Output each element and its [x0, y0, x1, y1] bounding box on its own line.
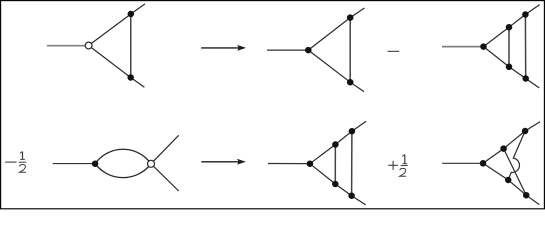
- label: coefficient -1/2: [5, 152, 26, 173]
- wire: bubble incoming horizontal propagator: [53, 163, 92, 165]
- label: coefficient +1/2: [388, 155, 408, 177]
- numerator digit 1: [404, 155, 406, 164]
- wire: D6 outer vertical rung: [351, 131, 353, 196]
- node: D3 left vertex dot: [480, 43, 487, 50]
- wire: D1 right vertical rung: [130, 14, 132, 78]
- node: D6 upper outer dot: [349, 128, 356, 135]
- numerator digit 1: [22, 152, 24, 160]
- node: D6 lower outer dot: [348, 192, 355, 199]
- wire: D2 lower side + outgoing leg: [308, 50, 364, 92]
- node: D6 lower inner dot: [332, 181, 339, 188]
- wire: D3 upper side + outgoing leg: [484, 5, 540, 47]
- wire: D3 incoming horizontal propagator: [442, 46, 484, 48]
- fraction bar: [401, 165, 408, 167]
- fraction bar: [19, 161, 27, 163]
- node: D7 upper inner dot: [500, 145, 507, 152]
- wire: D1 upper side: [89, 14, 131, 46]
- wire: D6 incoming horizontal propagator: [268, 163, 310, 165]
- minus sign: [5, 161, 17, 163]
- node: D1 top vertex dot: [128, 11, 135, 18]
- wire: bubble lower arc: [95, 164, 151, 178]
- node: D6 upper inner dot: [332, 141, 339, 148]
- wire: D7 lower side + outgoing leg: [483, 163, 539, 204]
- node: D7 top dot: [522, 128, 529, 135]
- node: bubble right open (bare) vertex: [148, 160, 155, 167]
- node: D1 open (bare) vertex: [85, 42, 92, 49]
- diagram D1: one-loop triangle with bare (open) vertex: [47, 4, 145, 87]
- wire: D3 outer vertical rung: [524, 15, 526, 79]
- wire: D1 lower outgoing leg: [131, 78, 145, 88]
- wire: D6 lower side + outgoing leg: [310, 164, 366, 205]
- node: D2 left vertex dot: [305, 47, 312, 54]
- wire: D1 lower side: [89, 46, 131, 78]
- diagram D7: crossed (non-planar) two-rung triangle: [442, 122, 540, 205]
- diagram D6: planar two-rung ladder triangle (bottom): [268, 121, 366, 205]
- denominator digit 2: [400, 168, 407, 176]
- node: D6 left vertex dot: [307, 160, 314, 167]
- arrow: top row implication arrow: [201, 45, 246, 51]
- node: D3 upper outer dot: [522, 11, 529, 18]
- wire: bubble upper arc: [95, 149, 151, 164]
- operator: minus sign between D2 and D3: [388, 50, 400, 52]
- wire: upper-right outgoing leg: [151, 135, 179, 164]
- diagram D3: planar two-rung ladder triangle: [442, 5, 540, 88]
- wire: D3 lower side + outgoing leg: [484, 47, 540, 88]
- node: bubble left vertex dot: [92, 160, 99, 167]
- wire: D7 straight crossing rung (upper-inner to bottom): [504, 149, 527, 196]
- wire: D7 hopping rung (lower-inner to top) with crossover arc: [508, 131, 525, 180]
- diagram D2: one-loop triangle, all dressed vertices: [267, 8, 365, 92]
- wire: D6 upper side + outgoing leg: [310, 121, 366, 163]
- arrow: bottom row implication arrow: [201, 159, 246, 165]
- wire: D7 incoming horizontal propagator: [442, 162, 483, 164]
- node: D3 lower inner dot: [506, 64, 513, 71]
- wire: D1 upper outgoing leg: [131, 4, 145, 14]
- node: D3 lower outer dot: [522, 75, 529, 82]
- wire: lower-right outgoing leg: [151, 164, 179, 191]
- node: D7 bottom dot: [523, 192, 530, 199]
- node: D2 bottom vertex dot: [347, 79, 354, 86]
- wire: D7 upper side + outgoing leg: [483, 122, 540, 164]
- wire: D3 inner vertical rung: [508, 27, 510, 67]
- wire: D6 inner vertical rung: [334, 145, 336, 185]
- node: D7 lower inner dot: [505, 177, 512, 184]
- wire: D2 right vertical rung: [349, 18, 351, 83]
- node: D3 upper inner dot: [506, 24, 513, 31]
- denominator digit 2: [19, 165, 26, 173]
- node: D7 left vertex dot: [480, 160, 487, 167]
- wire: D2 upper side + outgoing leg: [308, 8, 364, 50]
- node: D1 bottom vertex dot: [127, 74, 134, 81]
- wire: D1 incoming horizontal propagator: [47, 45, 85, 47]
- wire: D2 incoming horizontal propagator: [267, 49, 308, 51]
- plus sign: [388, 164, 398, 166]
- diagram D5: one-loop bubble with bare 4-point vertex: [53, 135, 179, 191]
- node: D2 top vertex dot: [347, 14, 354, 21]
